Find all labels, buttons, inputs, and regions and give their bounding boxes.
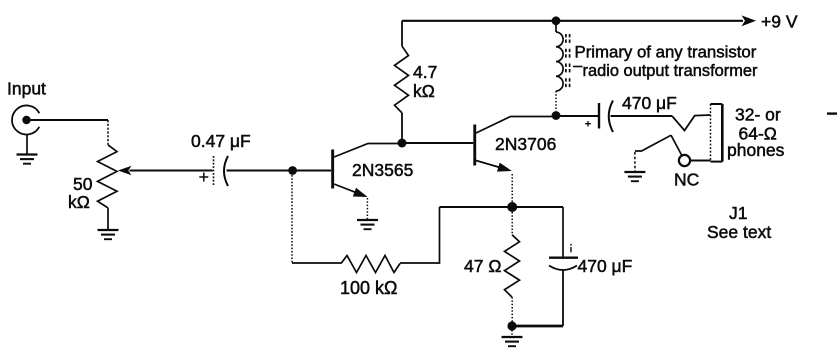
svg-text:2N3706: 2N3706 [495, 134, 556, 154]
svg-text:4.7: 4.7 [413, 62, 437, 82]
svg-text:radio output transformer: radio output transformer [583, 62, 758, 80]
svg-text:50: 50 [73, 174, 93, 194]
svg-text:kΩ: kΩ [413, 81, 435, 101]
svg-text:+9 V: +9 V [761, 12, 798, 32]
svg-text:NC: NC [674, 170, 699, 190]
svg-text:Input: Input [7, 79, 46, 99]
svg-text:Primary of any transistor: Primary of any transistor [575, 42, 757, 61]
svg-text:47 Ω: 47 Ω [464, 256, 501, 276]
svg-text:J1: J1 [729, 203, 747, 223]
svg-text:470 μF: 470 μF [622, 93, 677, 113]
svg-text:32- or: 32- or [735, 105, 781, 125]
svg-text:See text: See text [707, 222, 771, 242]
svg-text:470 μF: 470 μF [578, 256, 633, 276]
svg-text:phones: phones [727, 140, 785, 160]
svg-text:100 kΩ: 100 kΩ [340, 278, 398, 298]
svg-text:0.47 μF: 0.47 μF [191, 131, 251, 151]
svg-text:2N3565: 2N3565 [352, 160, 413, 180]
svg-text:kΩ: kΩ [68, 192, 90, 212]
